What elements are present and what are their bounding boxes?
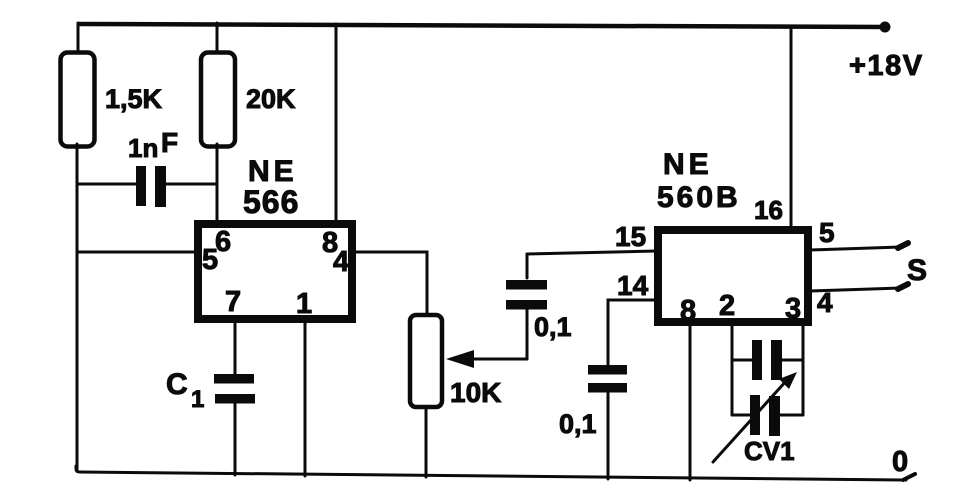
label 0 ground — [892, 446, 908, 478]
op-amp U1 NE566 — [198, 155, 352, 319]
svg-text:560B: 560B — [657, 181, 741, 214]
capacitor C1 — [166, 368, 255, 475]
label S output — [907, 254, 927, 287]
wire pin 8 U2 to ground — [689, 324, 692, 480]
pin 6 label U1 — [215, 226, 231, 258]
label +18V — [849, 50, 924, 82]
wire pin 4 U1 to potentiometer — [355, 252, 427, 314]
svg-text:8: 8 — [680, 295, 696, 327]
wire pin 5 U1 — [77, 251, 196, 254]
wire pin 15 U2 — [527, 221, 656, 254]
svg-text:4: 4 — [333, 246, 349, 278]
svg-text:1,5K: 1,5K — [105, 84, 163, 114]
wire CV1 left branch (pin 2) — [731, 324, 734, 415]
resistor 20K — [201, 23, 296, 222]
svg-text:CV1: CV1 — [744, 436, 795, 466]
wire pin 16 U2 to rail — [790, 26, 793, 227]
svg-text:+18V: +18V — [849, 50, 924, 82]
wire pin 14 U2 — [608, 270, 656, 366]
wire 0 bottom rail (ground) — [76, 466, 915, 480]
svg-text:5: 5 — [202, 244, 218, 276]
svg-text:5: 5 — [819, 217, 835, 248]
wire pin 5 U2 output terminal — [810, 243, 908, 250]
pin 16 label U2 — [754, 195, 783, 225]
svg-text:0,1: 0,1 — [559, 409, 597, 439]
capacitor 0,1 (second) — [559, 365, 627, 479]
pin 5 label U2 — [819, 217, 835, 248]
svg-text:1: 1 — [191, 386, 204, 413]
svg-text:2: 2 — [719, 290, 735, 322]
pin 4 label U2 — [817, 287, 833, 318]
svg-text:15: 15 — [615, 221, 646, 252]
svg-text:0,1: 0,1 — [534, 312, 572, 342]
resistor 1,5K — [61, 53, 163, 147]
pin 4 label U1 — [333, 246, 349, 278]
pin 2 label U2 — [719, 290, 735, 322]
svg-text:16: 16 — [754, 195, 783, 225]
svg-text:20K: 20K — [246, 84, 296, 114]
capacitor variable CV1 (bottom of loop) — [713, 372, 803, 466]
pin 1 label U1 — [296, 288, 312, 320]
pin 7 label U1 — [225, 286, 241, 318]
svg-text:3: 3 — [785, 293, 801, 325]
pin 8 label U2 — [680, 295, 696, 327]
capacitor 1nF — [79, 127, 217, 207]
svg-text:10K: 10K — [450, 377, 501, 408]
pin 8 label U1 — [322, 227, 338, 259]
wire +18V top rail — [79, 22, 891, 33]
wire left rail — [77, 23, 78, 471]
svg-text:14: 14 — [617, 270, 649, 301]
capacitor 0,1 (first) — [506, 254, 572, 359]
svg-text:C: C — [166, 368, 188, 401]
wire pin 1 U1 — [304, 322, 307, 476]
svg-text:0: 0 — [892, 446, 908, 478]
pin 5 label U1 — [202, 244, 218, 276]
op-amp U2 NE560B — [657, 148, 808, 322]
wire CV1 right branch (pin 3) — [802, 324, 805, 415]
wire pin 8 U1 to rail — [335, 24, 338, 221]
potentiometer 10K — [410, 315, 527, 477]
svg-text:1n: 1n — [128, 133, 158, 163]
svg-text:S: S — [907, 254, 927, 287]
svg-text:566: 566 — [243, 184, 299, 220]
svg-text:7: 7 — [225, 286, 241, 318]
svg-text:1: 1 — [296, 288, 312, 320]
wire pin 7 U1 — [234, 322, 237, 375]
pin 3 label U2 — [785, 293, 801, 325]
svg-text:NE: NE — [663, 148, 713, 181]
wire pin 4 U2 output terminal — [810, 284, 908, 291]
capacitor fixed (top of CV1 loop) — [732, 340, 803, 380]
svg-text:F: F — [161, 127, 178, 158]
